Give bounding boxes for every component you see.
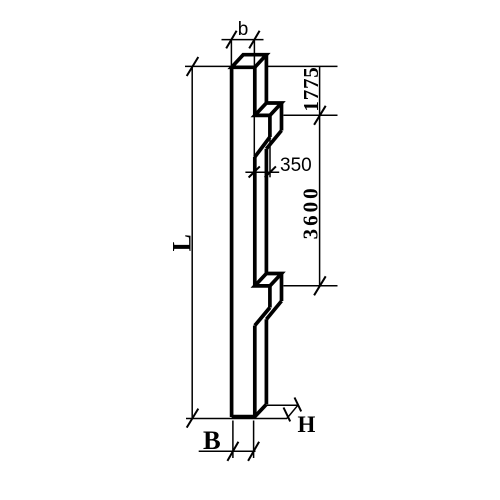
column back-right edge (corbel1 to corbel2)	[265, 149, 269, 274]
node b dimension line (top)	[222, 39, 264, 41]
node B left extension	[232, 421, 234, 459]
corbel1 front slant	[255, 137, 270, 157]
node H top tick	[295, 398, 302, 412]
svg-text:350: 350	[280, 155, 312, 176]
wire: H back extension line	[267, 404, 298, 406]
wire: top extension line right of column to right dim line	[268, 65, 338, 67]
corbel2 back slant	[266, 301, 281, 319]
column back-right edge (top to corbel1 back)	[265, 55, 269, 103]
node 350 right tick	[265, 166, 276, 177]
svg-text:L: L	[168, 234, 197, 251]
node H dimension line (oblique)	[287, 405, 298, 418]
node tick at 3600 bottom	[314, 276, 326, 295]
corbel1 front tip edge	[268, 115, 272, 137]
node L bottom tick	[187, 409, 199, 428]
corbel1 back tip edge	[280, 103, 284, 131]
wire: extension line at corbel1 top	[284, 114, 338, 116]
node 350 left tick	[249, 166, 260, 177]
wire: top extension line left of column	[185, 65, 231, 67]
node B right extension	[253, 421, 255, 459]
wire: bottom extension line	[186, 418, 287, 420]
node 350 left ext (over column edge)	[253, 117, 255, 177]
corbel1 top face (parallelogram)	[255, 103, 282, 115]
node L dimension line (left vertical)	[191, 66, 193, 418]
column top face (parallelogram)	[232, 55, 267, 68]
node b right tick	[249, 31, 259, 49]
node right dimension line (vertical, 1775/3600)	[319, 66, 321, 285]
node B left tick	[227, 442, 238, 461]
svg-text:B: B	[203, 425, 221, 455]
svg-text:H: H	[298, 412, 316, 437]
svg-text:b: b	[238, 19, 249, 40]
node H bottom tick	[284, 408, 291, 422]
node tick at 1775/3600 boundary	[314, 106, 326, 125]
column front-right edge (top to corbel1)	[253, 67, 257, 115]
node 350 dimension line	[245, 171, 279, 173]
node 350 right ext	[269, 137, 271, 177]
column front-right edge (corbel1 to corbel2)	[253, 157, 257, 286]
node L top tick	[187, 57, 199, 76]
svg-text:1775: 1775	[299, 66, 323, 111]
column left edge	[230, 67, 234, 417]
wire: extension line at corbel2 top	[284, 285, 338, 287]
corbel1 back slant	[266, 131, 281, 149]
column front-right edge (corbel2 to bottom)	[253, 326, 257, 418]
corbel2 front slant	[255, 308, 270, 326]
corbel2 front tip edge	[268, 286, 272, 308]
node b left extension	[230, 40, 232, 67]
svg-text:3600: 3600	[299, 185, 323, 239]
node b left tick	[226, 31, 236, 49]
node B dimension line (bottom)	[199, 450, 256, 452]
column bottom front edge + bottom oblique edge	[232, 404, 267, 416]
corbel2 top face (parallelogram)	[255, 274, 282, 286]
node B right tick	[248, 442, 259, 461]
column back-right edge (corbel2 to bottom back)	[265, 319, 269, 404]
corbel2 back tip edge	[280, 274, 284, 302]
node b right extension	[253, 40, 255, 67]
